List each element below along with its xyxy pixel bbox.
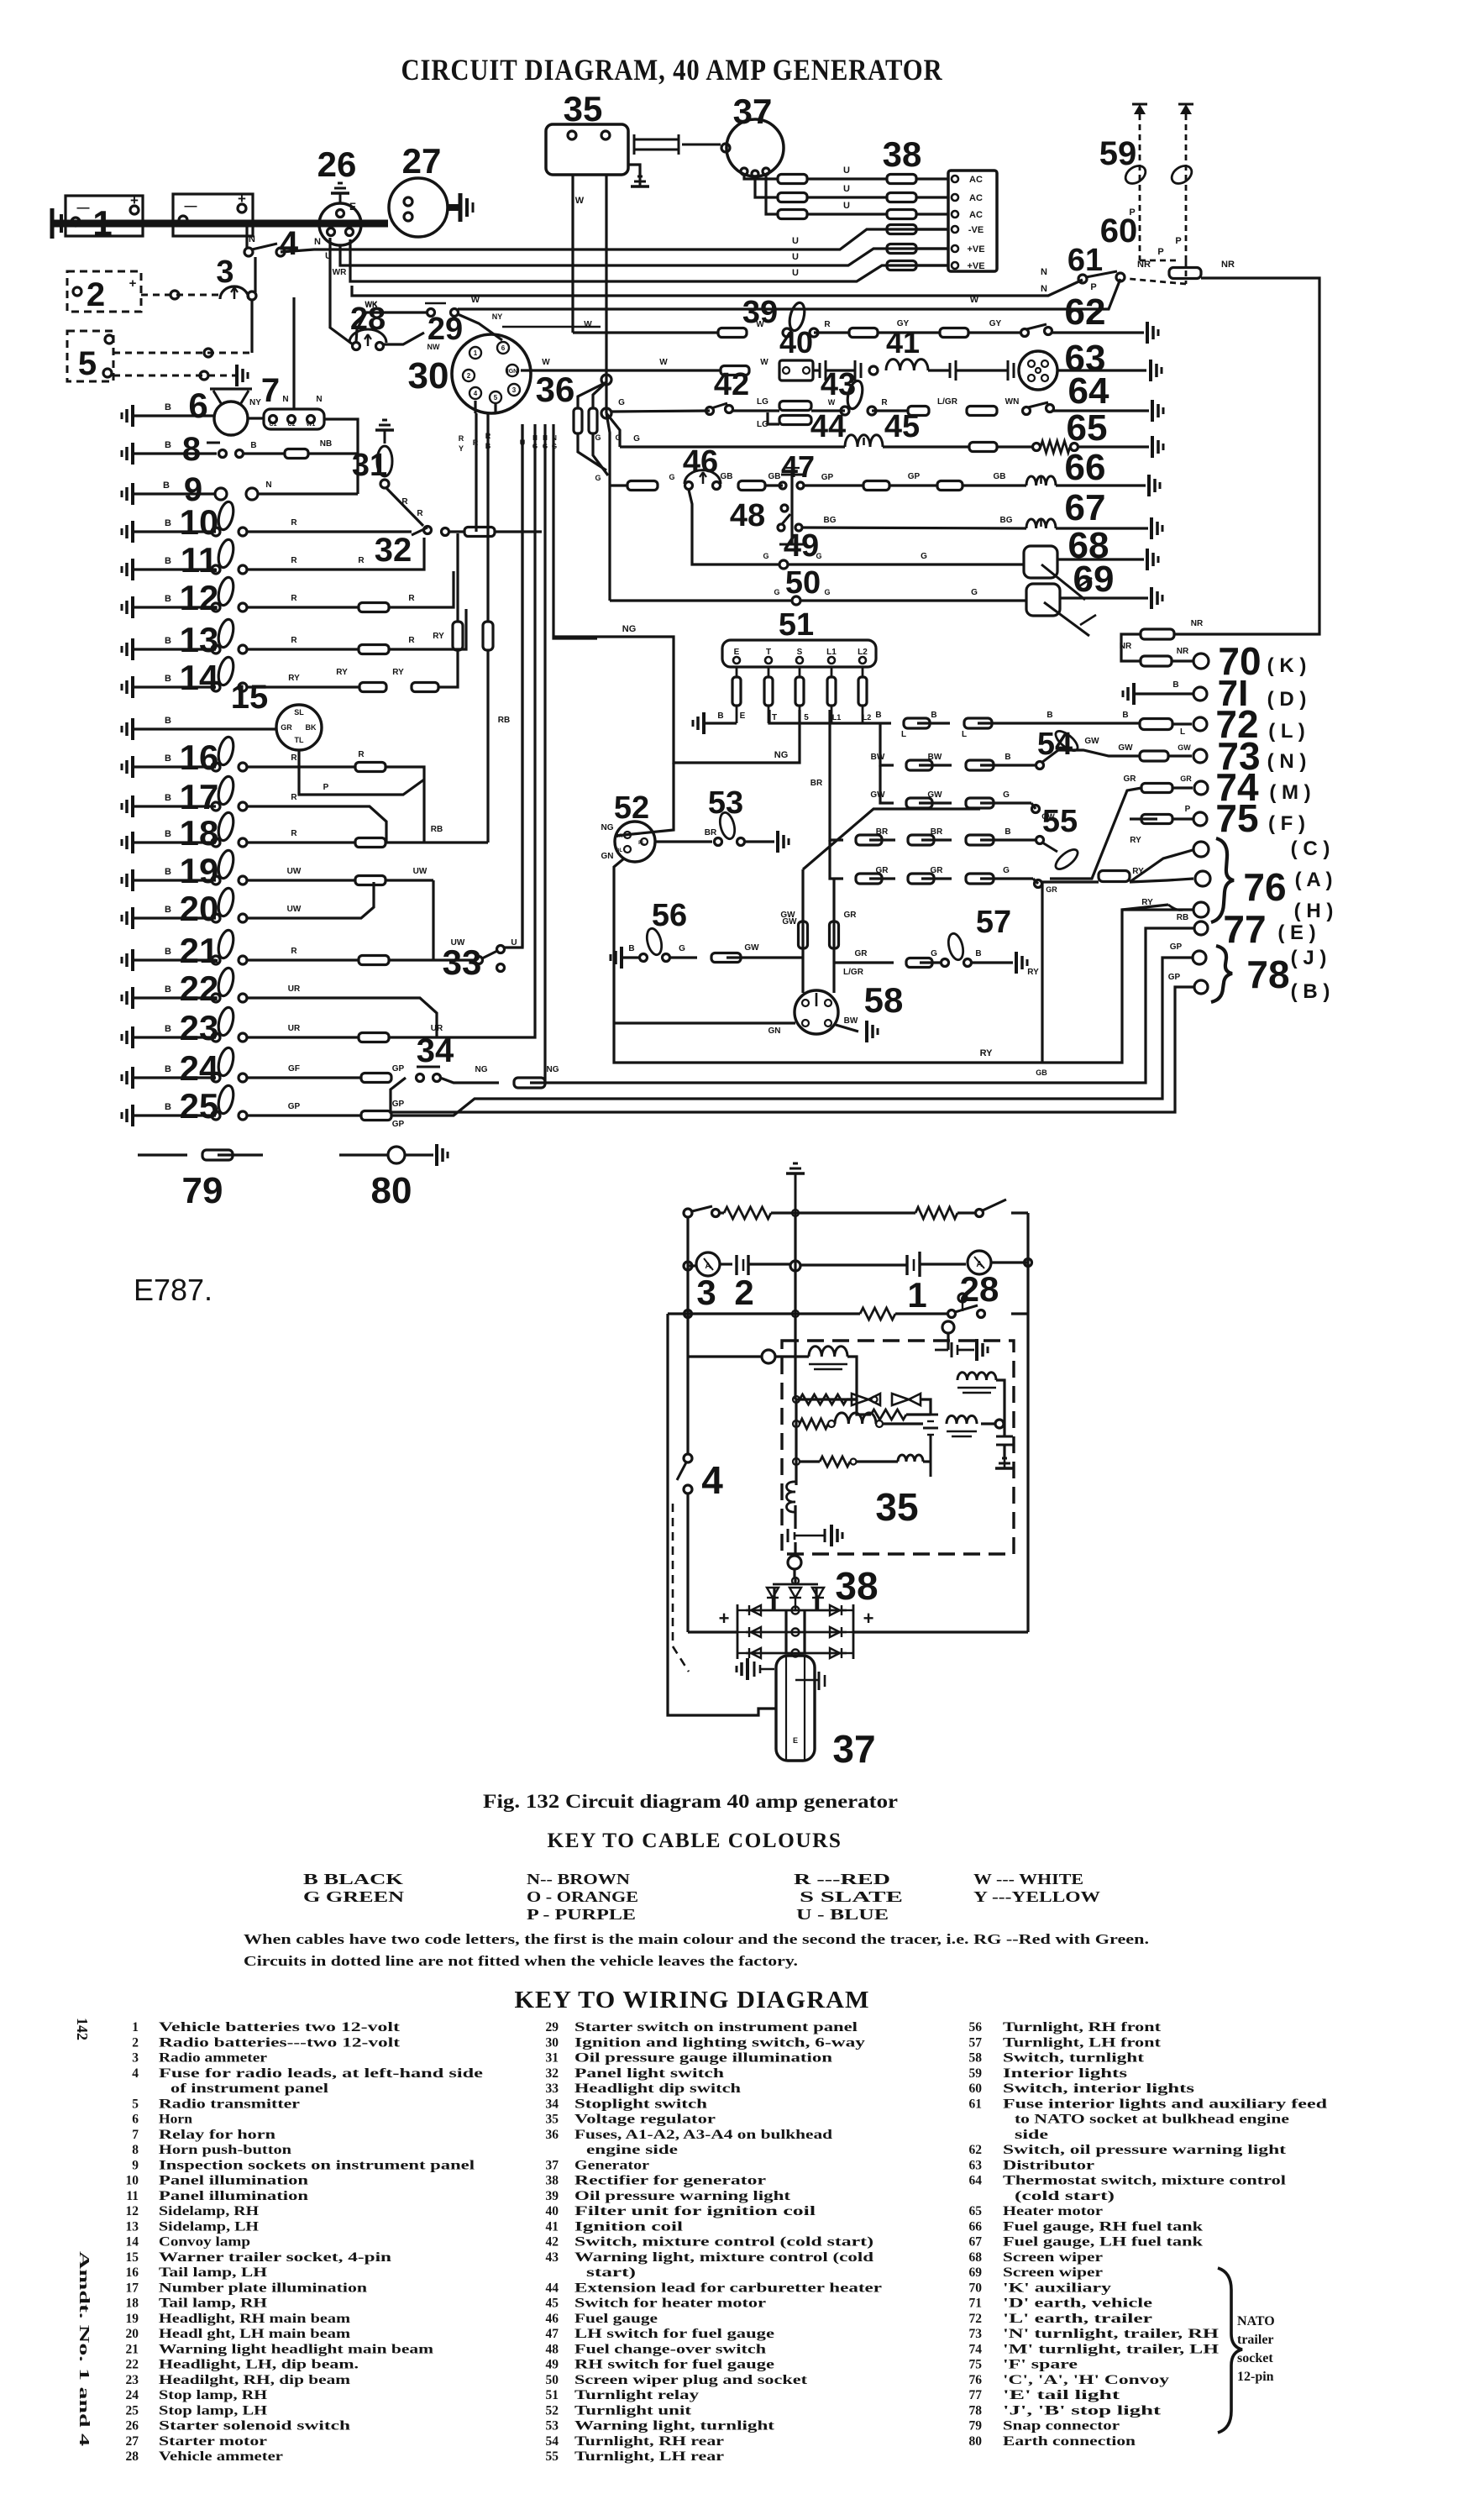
relay for horn 7	[248, 417, 264, 419]
svg-text:G: G	[824, 588, 830, 596]
svg-text:'K' auxiliary: 'K' auxiliary	[1003, 2281, 1111, 2295]
svg-text:L2: L2	[863, 713, 872, 722]
svg-text:GR: GR	[844, 911, 858, 920]
svg-text:R: R	[291, 556, 297, 565]
svg-text:29: 29	[546, 2020, 559, 2034]
svg-text:B: B	[165, 753, 171, 764]
fuse RB vertical	[483, 622, 493, 650]
node below regulator	[788, 1556, 801, 1569]
svg-text:R: R	[291, 829, 297, 838]
svg-text:RB: RB	[431, 825, 443, 834]
svg-text:( H ): ( H )	[1294, 900, 1334, 922]
svg-text:RY: RY	[392, 668, 404, 677]
svg-text:L1: L1	[832, 713, 842, 722]
svg-text:RH switch for fuel gauge: RH switch for fuel gauge	[574, 2358, 774, 2372]
ground top (second schematic)	[786, 1172, 805, 1175]
svg-text:GN: GN	[768, 1026, 781, 1036]
svg-text:28: 28	[960, 1269, 999, 1309]
wire row22	[247, 998, 437, 1037]
wire bundle RY bottom	[614, 910, 1193, 1063]
svg-text:34: 34	[546, 2097, 559, 2111]
battery 1 (vehicle batteries)	[66, 196, 143, 236]
svg-text:67: 67	[1065, 487, 1106, 528]
svg-text:CIRCUIT DIAGRAM, 40 AMP GE: CIRCUIT DIAGRAM, 40 AMP GENERATOR	[401, 53, 943, 87]
svg-text:G: G	[669, 473, 674, 481]
node center row2	[684, 1262, 692, 1270]
svg-text:G GREEN: G GREEN	[303, 1888, 404, 1905]
svg-text:WN: WN	[1005, 397, 1020, 407]
svg-text:12-pin: 12-pin	[1237, 2370, 1274, 2384]
svg-text:35: 35	[546, 2113, 559, 2127]
svg-text:B: B	[165, 440, 171, 450]
svg-text:UW: UW	[287, 905, 302, 914]
svg-text:5: 5	[78, 345, 97, 382]
svg-text:Warning light, mixture control: Warning light, mixture control (cold	[574, 2250, 874, 2265]
svg-text:G: G	[921, 552, 927, 561]
svg-text:37: 37	[832, 1727, 875, 1771]
svg-text:'J', 'B' stop light: 'J', 'B' stop light	[1003, 2403, 1162, 2418]
turnlight RH front 56	[620, 947, 623, 969]
svg-text:33: 33	[546, 2082, 559, 2096]
svg-text:W: W	[575, 196, 585, 206]
svg-text:Headlight dip switch: Headlight dip switch	[574, 2082, 742, 2096]
fuse AC3	[778, 210, 807, 219]
svg-text:Heater motor: Heater motor	[1003, 2204, 1103, 2218]
svg-text:R: R	[473, 438, 479, 447]
svg-text:29: 29	[428, 312, 463, 347]
svg-text:49: 49	[784, 528, 819, 564]
svg-text:C2: C2	[288, 422, 296, 428]
lamp 12 (sidelamp RH)	[131, 596, 134, 618]
lamp 17 (number plate lamp)	[131, 795, 134, 817]
svg-text:49: 49	[546, 2358, 559, 2372]
svg-text:Sidelamp, LH: Sidelamp, LH	[159, 2219, 259, 2234]
svg-text:Generator: Generator	[574, 2158, 649, 2172]
terminal 71 D earth	[1132, 683, 1136, 705]
interior lamp 59b (dashed)	[1185, 114, 1188, 260]
terminal 70 K auxiliary	[1172, 659, 1193, 662]
svg-text:GR: GR	[1124, 774, 1137, 784]
svg-text:E: E	[793, 1736, 798, 1745]
wire GR row	[830, 840, 843, 879]
wire relay N up to bus	[292, 297, 295, 409]
svg-text:Extension lead for carburetter: Extension lead for carburetter heater	[574, 2281, 882, 2295]
regulator RdB coil	[947, 1415, 977, 1424]
svg-text:GP: GP	[392, 1100, 405, 1109]
svg-text:B: B	[975, 949, 981, 958]
svg-text:38: 38	[835, 1564, 878, 1608]
svg-text:57: 57	[969, 2035, 983, 2050]
svg-text:P: P	[1185, 805, 1191, 814]
svg-text:GP: GP	[908, 472, 921, 481]
svg-text:N: N	[316, 395, 322, 404]
svg-text:BR: BR	[810, 779, 823, 788]
lamp 16 (tail lamp LH)	[131, 756, 134, 778]
svg-text:UR: UR	[288, 984, 301, 994]
wire bus to switch4	[245, 223, 248, 249]
svg-text:13: 13	[126, 2219, 139, 2234]
regulator row A: resistor + cutout points	[793, 1396, 800, 1403]
svg-text:47: 47	[781, 449, 815, 484]
svg-text:42: 42	[714, 367, 749, 402]
rectifier block 38	[948, 171, 997, 271]
svg-text:30: 30	[546, 2035, 559, 2050]
wire left vertical (second schematic)	[686, 1217, 689, 1455]
svg-text:( K ): ( K )	[1267, 654, 1307, 677]
terminal 77 E tail light	[1194, 921, 1208, 935]
svg-text:Rectifier for generator: Rectifier for generator	[574, 2174, 766, 2188]
wire NG vertical	[543, 424, 546, 1083]
capacitor top right (schematic 2)	[942, 1321, 954, 1333]
svg-text:B: B	[165, 716, 171, 726]
wire row21 + fuse	[247, 958, 359, 961]
svg-text:GW: GW	[782, 917, 797, 927]
svg-text:GN: GN	[601, 852, 614, 861]
inspection sockets 9	[131, 483, 134, 505]
svg-text:58: 58	[969, 2051, 983, 2066]
fuse NG bottom	[514, 1078, 545, 1088]
wires fuses to block	[916, 177, 948, 180]
svg-text:68: 68	[969, 2250, 983, 2265]
svg-text:GW: GW	[1084, 737, 1099, 746]
lamp 19 (headlamp RH main)	[131, 869, 134, 891]
svg-text:BR: BR	[705, 828, 717, 837]
svg-text:142: 142	[74, 2018, 91, 2040]
svg-text:Snap connector: Snap connector	[1003, 2419, 1120, 2433]
svg-text:T: T	[772, 713, 777, 722]
svg-text:71: 71	[969, 2297, 983, 2311]
fuse RY vertical	[453, 622, 463, 650]
lamp 11 (panel lamp)	[131, 559, 134, 580]
regulator shunt coil	[809, 1347, 847, 1357]
svg-text:N: N	[1041, 267, 1047, 277]
svg-text:S SLATE: S SLATE	[800, 1888, 903, 1905]
svg-text:NG: NG	[622, 624, 637, 634]
wire row24 GP drop	[391, 987, 1193, 1112]
svg-text:65: 65	[1067, 407, 1108, 449]
svg-text:GR: GR	[931, 866, 944, 875]
svg-text:B: B	[163, 480, 170, 491]
svg-text:54: 54	[546, 2434, 559, 2449]
svg-text:Turnlight, LH rear: Turnlight, LH rear	[574, 2449, 724, 2464]
svg-text:L: L	[1180, 727, 1185, 737]
svg-text:50: 50	[546, 2373, 559, 2387]
svg-text:39: 39	[546, 2189, 559, 2203]
svg-text:14: 14	[126, 2235, 139, 2250]
wire W line to 61	[458, 279, 1120, 309]
NATO bracket	[1218, 2268, 1242, 2433]
svg-text:NG: NG	[547, 1065, 559, 1074]
svg-text:Inspection sockets on instrume: Inspection sockets on instrument panel	[159, 2158, 475, 2172]
wire row13 + fuse	[247, 648, 359, 650]
switch turnlight 58	[795, 990, 838, 1034]
svg-text:Panel light switch: Panel light switch	[574, 2066, 725, 2081]
switch interior lights 60 (dashed)	[1140, 260, 1180, 262]
svg-text:31: 31	[546, 2051, 559, 2066]
svg-text:3: 3	[132, 2051, 139, 2066]
lamp 13 (sidelamp LH)	[131, 638, 134, 660]
svg-text:'E' tail light: 'E' tail light	[1003, 2388, 1120, 2402]
wire row16 + fuse	[247, 765, 355, 768]
svg-text:B: B	[165, 984, 171, 995]
svg-text:GR: GR	[855, 949, 868, 958]
fuse 61 switch	[1078, 275, 1087, 283]
switch mixture control 42 row	[611, 411, 710, 412]
svg-text:44: 44	[810, 409, 846, 444]
svg-text:11: 11	[126, 2189, 139, 2203]
svg-text:B: B	[1122, 711, 1128, 720]
wire GR to terminal 74	[1050, 788, 1141, 879]
svg-text:Amdt. No. 1 and 4: Amdt. No. 1 and 4	[76, 2251, 92, 2447]
radio transmitter 5 (dashed)	[67, 331, 113, 381]
svg-text:Y: Y	[459, 444, 464, 453]
svg-text:41: 41	[546, 2219, 559, 2234]
svg-text:Convoy lamp: Convoy lamp	[159, 2235, 250, 2250]
wire GN from 58	[614, 1021, 795, 1024]
svg-text:5: 5	[804, 713, 809, 722]
capacitor ground bottom (schematic 2)	[787, 1529, 789, 1542]
terminal 78 J B stop light	[1193, 951, 1206, 964]
svg-text:+: +	[719, 1608, 730, 1629]
svg-text:30: 30	[408, 355, 449, 396]
svg-text:P: P	[1175, 236, 1181, 246]
svg-text:62: 62	[969, 2143, 983, 2157]
svg-text:66: 66	[969, 2219, 983, 2234]
svg-text:GB: GB	[1036, 1068, 1047, 1077]
lamp 10 (panel lamp)	[131, 521, 134, 543]
svg-text:RY: RY	[980, 1048, 994, 1058]
snap connector 79	[138, 1153, 187, 1156]
svg-text:Panel illumination: Panel illumination	[159, 2189, 309, 2203]
generator capacitors	[753, 1662, 756, 1677]
svg-text:WK: WK	[365, 301, 378, 309]
svg-text:BW: BW	[928, 753, 942, 762]
svg-text:R: R	[291, 793, 297, 802]
svg-text:4: 4	[701, 1458, 723, 1502]
vehicle battery 1 (schematic 2)	[905, 1255, 908, 1275]
wire NG to 52	[616, 763, 674, 836]
svg-text:2: 2	[734, 1273, 753, 1312]
thermostat fuel gauge 66	[1026, 476, 1056, 486]
svg-text:B: B	[165, 636, 171, 646]
svg-text:80: 80	[969, 2434, 983, 2449]
fuse row5	[887, 244, 916, 254]
wire BR row to switch 55	[830, 710, 843, 840]
thermostat fuel gauge 67	[1026, 519, 1056, 528]
svg-text:B: B	[875, 711, 881, 720]
svg-text:B: B	[1046, 711, 1052, 720]
svg-text:11: 11	[181, 540, 218, 580]
svg-text:trailer: trailer	[1237, 2333, 1274, 2347]
lamp 14 (convoy lamp)	[131, 676, 134, 698]
svg-text:32: 32	[375, 532, 412, 569]
fuse 4 switch	[244, 248, 253, 256]
fuse row10	[464, 528, 495, 537]
svg-text:Panel illumination: Panel illumination	[159, 2174, 309, 2188]
svg-text:6: 6	[188, 386, 207, 425]
svg-text:48: 48	[730, 498, 765, 533]
svg-text:GW: GW	[1178, 743, 1191, 752]
svg-text:B: B	[628, 944, 634, 953]
svg-text:N: N	[1041, 284, 1047, 294]
svg-text:—: —	[77, 201, 90, 215]
svg-text:56: 56	[969, 2020, 983, 2034]
wire GW row	[880, 765, 894, 803]
svg-text:Headilght, RH, dip beam: Headilght, RH, dip beam	[159, 2373, 350, 2387]
radio ammeter 3 (schematic 2)	[688, 1264, 696, 1267]
svg-text:( L ): ( L )	[1268, 720, 1305, 743]
svg-text:'F' spare: 'F' spare	[1003, 2358, 1078, 2372]
fuse row4	[887, 225, 916, 234]
svg-text:B: B	[165, 674, 171, 684]
warning light mixture 43	[811, 409, 845, 412]
svg-text:7: 7	[132, 2128, 139, 2142]
svg-text:Fuses, A1-A2, A3-A4 on bulkhea: Fuses, A1-A2, A3-A4 on bulkhead	[574, 2128, 833, 2142]
svg-text:16: 16	[126, 2265, 139, 2280]
earth connection 80	[339, 1153, 388, 1156]
wire NG vertical b	[553, 424, 597, 638]
svg-text:Warning light headlight main b: Warning light headlight main beam	[159, 2342, 433, 2356]
svg-text:NY: NY	[492, 312, 503, 321]
svg-text:27: 27	[402, 141, 442, 181]
svg-text:32: 32	[546, 2066, 559, 2081]
wire center vertical (schematic 2)	[794, 1213, 796, 1266]
svg-text:53: 53	[708, 785, 743, 821]
svg-text:57: 57	[976, 905, 1011, 940]
svg-text:55: 55	[1042, 804, 1078, 839]
svg-text:NG: NG	[475, 1065, 488, 1074]
svg-text:75: 75	[969, 2358, 983, 2372]
svg-text:U: U	[792, 268, 799, 278]
svg-text:U: U	[511, 938, 517, 948]
svg-text:BR: BR	[876, 827, 889, 837]
battery 1b	[173, 194, 253, 236]
thermostat switch 64	[1023, 407, 1031, 415]
svg-text:Starter solenoid switch: Starter solenoid switch	[159, 2419, 351, 2433]
svg-text:R: R	[485, 432, 491, 440]
svg-text:E: E	[349, 201, 356, 213]
svg-text:( E ): ( E )	[1277, 921, 1315, 944]
svg-text:BK: BK	[306, 723, 317, 732]
svg-text:B: B	[165, 594, 171, 604]
svg-text:-VE: -VE	[968, 225, 984, 235]
svg-text:Fuel gauge, LH fuel tank: Fuel gauge, LH fuel tank	[1003, 2235, 1204, 2250]
wire U vertical (from 30)	[521, 424, 523, 948]
svg-text:P: P	[323, 783, 329, 792]
svg-text:+: +	[863, 1608, 874, 1629]
svg-text:Warner trailer socket, 4-pin: Warner trailer socket, 4-pin	[159, 2250, 392, 2265]
svg-text:LH switch for fuel gauge: LH switch for fuel gauge	[574, 2327, 774, 2341]
svg-text:76: 76	[1243, 865, 1286, 909]
regulator row B: resistor	[871, 1410, 906, 1420]
radio battery 2 (dashed)	[67, 271, 141, 312]
svg-text:GP: GP	[288, 1102, 301, 1111]
svg-text:Switch, mixture control (cold: Switch, mixture control (cold start)	[574, 2235, 873, 2250]
svg-text:Ignition coil: Ignition coil	[574, 2219, 684, 2234]
svg-text:B: B	[165, 947, 171, 957]
svg-text:RB: RB	[1177, 913, 1188, 922]
svg-text:G: G	[615, 433, 621, 442]
svg-text:E787.: E787.	[134, 1273, 212, 1307]
svg-text:G: G	[774, 588, 779, 596]
svg-text:40: 40	[546, 2204, 559, 2218]
svg-text:W: W	[970, 295, 979, 305]
svg-text:Turnlight, RH rear: Turnlight, RH rear	[574, 2434, 724, 2449]
svg-text:Switch for heater motor: Switch for heater motor	[574, 2297, 766, 2311]
svg-text:'N' turnlight, trailer, RH: 'N' turnlight, trailer, RH	[1003, 2327, 1219, 2341]
svg-text:G: G	[618, 398, 625, 407]
svg-text:( M ): ( M )	[1269, 781, 1310, 804]
wire NG loop to relay	[553, 637, 800, 763]
svg-text:+VE: +VE	[967, 261, 984, 271]
svg-text:G: G	[931, 949, 937, 958]
svg-text:17: 17	[126, 2281, 139, 2295]
svg-text:48: 48	[546, 2342, 559, 2356]
turnlight RH rear switch 54	[1036, 762, 1044, 769]
svg-text:7: 7	[261, 372, 280, 409]
svg-text:LG: LG	[757, 397, 768, 407]
wire 61 to right edge down to NATO	[1174, 278, 1319, 634]
svg-text:6: 6	[132, 2113, 139, 2127]
svg-text:GP: GP	[392, 1120, 405, 1129]
fuse AC1	[778, 175, 807, 184]
svg-text:B: B	[165, 867, 171, 877]
wire right vertical (second schematic)	[1026, 1213, 1029, 1632]
wire relay right down	[324, 419, 358, 494]
svg-text:L/GR: L/GR	[843, 968, 864, 977]
svg-text:B: B	[165, 829, 171, 839]
svg-text:BG: BG	[1000, 516, 1013, 525]
oil pressure warning light 39	[573, 331, 718, 333]
wire row19 + fuse	[247, 879, 355, 881]
svg-text:1: 1	[474, 349, 478, 357]
wire BW row to switch 54	[880, 723, 894, 765]
svg-text:U: U	[792, 236, 799, 246]
svg-text:GP: GP	[1170, 942, 1183, 952]
fuse NB row8	[285, 449, 308, 459]
fuse row6	[887, 261, 916, 270]
svg-text:Starter motor: Starter motor	[159, 2434, 267, 2449]
svg-text:AC: AC	[969, 210, 983, 220]
svg-text:26: 26	[317, 144, 357, 184]
svg-text:Tail lamp, LH: Tail lamp, LH	[159, 2265, 267, 2280]
wire GN from 52 down	[614, 858, 624, 1026]
svg-text:W --- WHITE: W --- WHITE	[973, 1871, 1083, 1887]
wire row3 (schematic 2)	[668, 1312, 860, 1315]
svg-text:2: 2	[87, 276, 105, 313]
svg-text:64: 64	[1068, 370, 1109, 412]
svg-text:NR: NR	[1177, 647, 1189, 656]
svg-text:41: 41	[886, 325, 920, 360]
svg-text:N-- BROWN: N-- BROWN	[527, 1871, 630, 1887]
svg-text:of instrument panel: of instrument panel	[170, 2082, 329, 2096]
svg-text:Screen wiper: Screen wiper	[1003, 2250, 1103, 2265]
svg-text:R: R	[408, 636, 415, 645]
svg-text:BW: BW	[871, 753, 885, 762]
lamp 25 (stop lamp LH)	[131, 1105, 134, 1126]
fuse 61	[1169, 268, 1201, 279]
svg-text:Oil pressure gauge illuminatio: Oil pressure gauge illumination	[574, 2051, 833, 2066]
wire bundle to fuse 61	[352, 280, 1083, 296]
regulator row C: series coil	[793, 1420, 800, 1427]
svg-text:B BLACK: B BLACK	[303, 1871, 403, 1887]
svg-text:BW: BW	[844, 1016, 858, 1026]
svg-text:77: 77	[969, 2388, 983, 2402]
svg-text:( D ): ( D )	[1267, 688, 1307, 711]
svg-text:WR: WR	[333, 268, 347, 277]
svg-text:KEY TO CABLE COLOURS: KEY TO CABLE COLOURS	[548, 1830, 842, 1852]
svg-text:6: 6	[501, 344, 506, 352]
